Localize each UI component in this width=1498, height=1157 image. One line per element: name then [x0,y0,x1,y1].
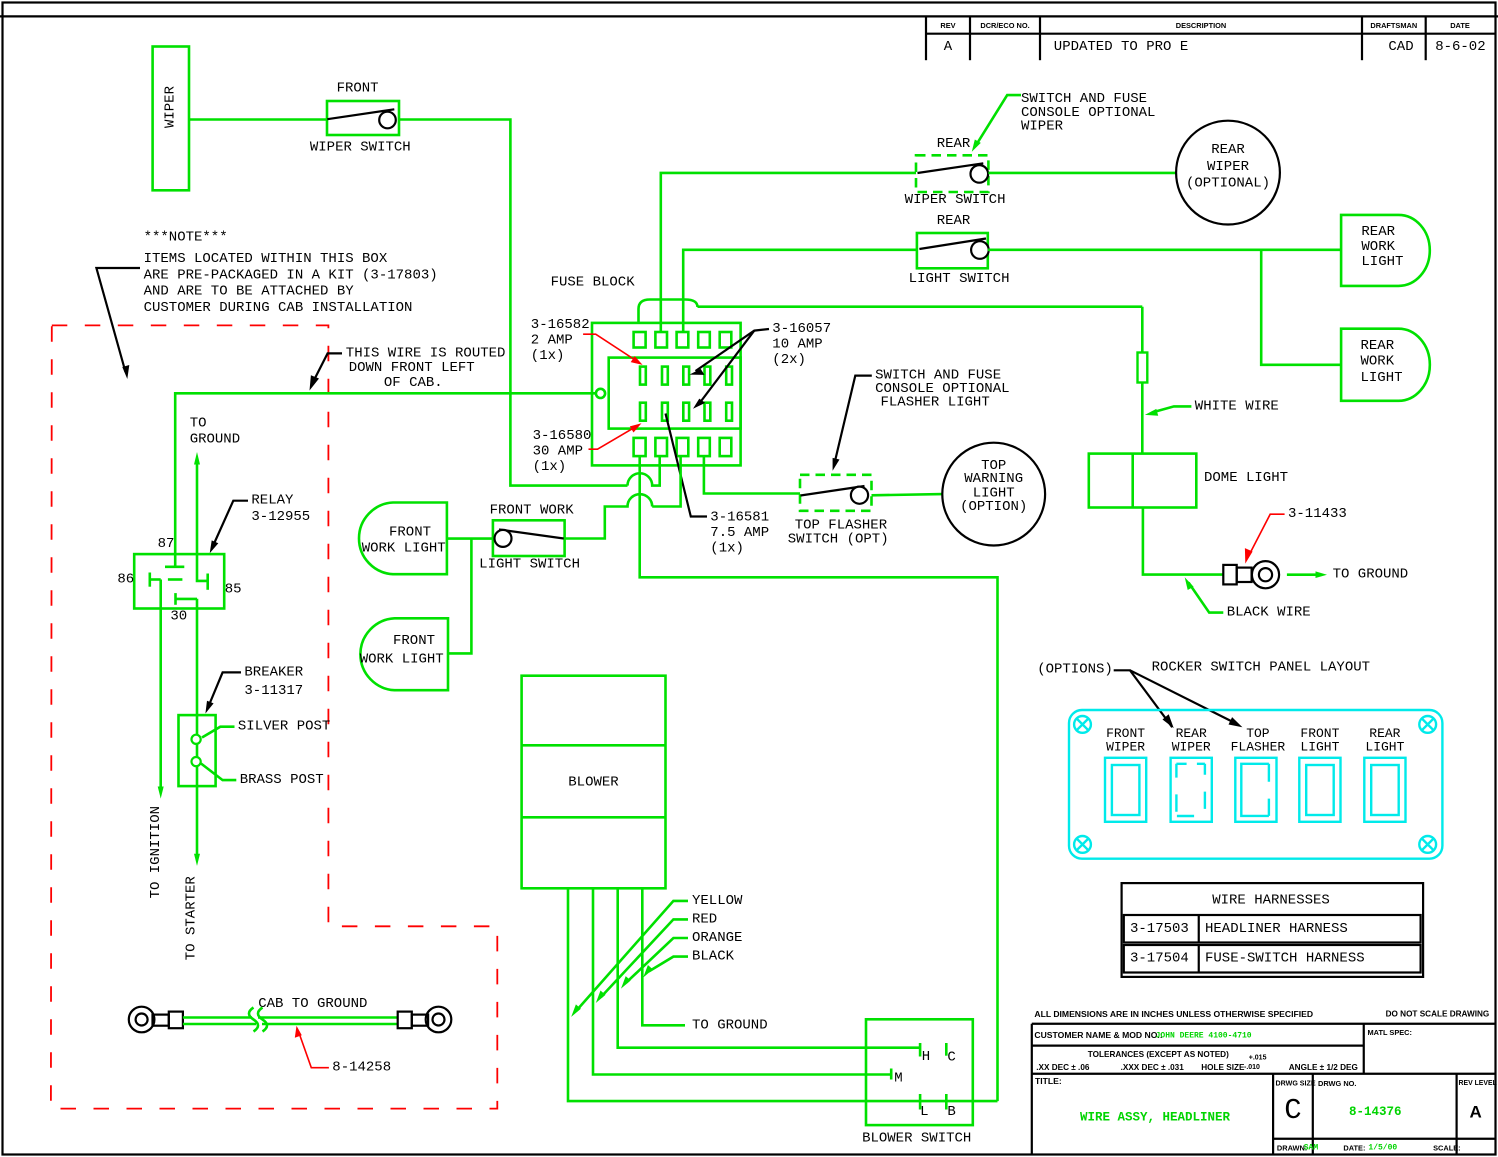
svg-text:87: 87 [158,536,175,552]
wire flasher switch to top warning light [872,494,943,495]
svg-text:3-16057: 3-16057 [772,321,831,337]
svg-text:HOLE SIZE: HOLE SIZE [1201,1063,1245,1072]
front wiper rocker hole [1105,758,1146,822]
rear wiper rocker hole (optional dashed) [1171,758,1212,822]
svg-text:DOWN FRONT LEFT: DOWN FRONT LEFT [349,360,475,376]
breaker CB1 box [179,715,216,786]
leader to flasher switch [834,376,872,464]
blower switch pin C [945,1043,948,1056]
svg-text:BLACK WIRE: BLACK WIRE [1227,605,1311,621]
svg-text:WIRE ASSY, HEADLINER: WIRE ASSY, HEADLINER [1080,1111,1231,1125]
breaker leader arrow [208,672,241,707]
wire fuse3 top to rear light switch [683,250,917,332]
svg-text:FRONT: FRONT [337,80,379,96]
svg-text:3-16581: 3-16581 [710,510,769,526]
svg-text:C: C [947,1050,955,1066]
svg-text:WIPER: WIPER [162,85,178,128]
blower wire D (black/ground) [642,888,685,1025]
blower wire C (orange) [618,888,920,1047]
rocker switch panel plate [1069,710,1442,859]
blower wire A (yellow) [568,888,998,1101]
front wiper switch contact [327,109,394,119]
svg-text:LIGHT: LIGHT [1361,370,1403,386]
wire hump over fuse1 drop [628,457,660,486]
svg-text:TO: TO [190,415,207,431]
svg-text:CUSTOMER NAME & MOD NO.:: CUSTOMER NAME & MOD NO.: [1034,1030,1162,1040]
screw top-left [1074,716,1091,733]
svg-text:DCR/ECO NO.: DCR/ECO NO. [980,21,1029,30]
revision table [926,16,1496,60]
svg-text:ALL DIMENSIONS ARE IN INCHES U: ALL DIMENSIONS ARE IN INCHES UNLESS OTHE… [1034,1009,1313,1019]
svg-text:THIS WIRE IS ROUTED: THIS WIRE IS ROUTED [346,345,506,361]
svg-text:REAR: REAR [937,213,971,229]
top flasher switch dashed box [800,475,872,511]
relay leader arrow [213,501,249,547]
front light rocker hole [1299,758,1340,822]
svg-text:ITEMS LOCATED WITHIN THIS BOX: ITEMS LOCATED WITHIN THIS BOX [144,251,388,267]
fuse bottom row terminals [634,438,732,456]
blower switch pin B [945,1094,948,1110]
rear light switch box [917,233,988,268]
svg-text:(OPTIONAL): (OPTIONAL) [1186,176,1270,192]
fuse block inner box [609,358,741,429]
dome light box [1089,454,1197,508]
svg-text:FUSE-SWITCH HARNESS: FUSE-SWITCH HARNESS [1205,950,1365,966]
THIS WIRE label [346,345,506,390]
svg-text:.XXX DEC ± .031: .XXX DEC ± .031 [1121,1063,1185,1072]
rear work light 1 [1341,215,1430,286]
svg-text:RED: RED [692,911,717,927]
blower switch box [866,1019,973,1125]
note text block [144,230,438,317]
svg-text:SILVER POST: SILVER POST [238,719,330,735]
fuse slots row 2 [640,403,732,421]
front work light 1 [359,503,447,575]
svg-text:BREAKER: BREAKER [244,664,303,680]
svg-text:C: C [1284,1094,1301,1127]
relay pin 85 internal [197,554,207,581]
fuse top row terminals [634,332,732,348]
wire hump to white-wire run [698,305,1143,308]
svg-text:WORK LIGHT: WORK LIGHT [362,540,446,556]
wire harnesses table [1122,883,1424,977]
svg-text:WHITE WIRE: WHITE WIRE [1195,398,1279,414]
svg-text:DRAWN:: DRAWN: [1277,1144,1307,1153]
svg-text:WIPER SWITCH: WIPER SWITCH [310,140,411,156]
svg-text:AND ARE TO BE ATTACHED BY: AND ARE TO BE ATTACHED BY [144,284,355,300]
svg-text:8-14258: 8-14258 [332,1060,391,1076]
svg-text:FLASHER LIGHT: FLASHER LIGHT [881,395,990,411]
svg-text:(OPTIONS): (OPTIONS) [1037,662,1113,678]
svg-text:FRONT WORK: FRONT WORK [490,503,575,519]
blower switch pin M [890,1069,893,1080]
svg-text:WIRE HARNESSES: WIRE HARNESSES [1212,892,1330,908]
screw bottom-left [1074,836,1091,853]
svg-text:DOME LIGHT: DOME LIGHT [1204,470,1288,486]
svg-text:CAD: CAD [1388,39,1413,55]
svg-text:.XX DEC ± .06: .XX DEC ± .06 [1036,1063,1090,1072]
svg-text:WIPER: WIPER [1106,740,1145,755]
svg-text:YELLOW: YELLOW [692,893,743,909]
svg-text:TO GROUND: TO GROUND [692,1017,768,1033]
svg-text:REAR: REAR [937,136,971,152]
rear work light 2 [1341,329,1430,401]
svg-text:+.015: +.015 [1249,1055,1267,1062]
svg-text:BRASS POST: BRASS POST [240,772,324,788]
svg-text:B: B [947,1104,955,1120]
svg-text:HEADLINER HARNESS: HEADLINER HARNESS [1205,921,1348,937]
wire wiper to front wiper switch [189,118,327,121]
front light switch contact [499,530,564,539]
svg-text:TOLERANCES (EXCEPT AS NOTED): TOLERANCES (EXCEPT AS NOTED) [1088,1050,1229,1059]
svg-text:A: A [1469,1103,1481,1122]
svg-text:3-12955: 3-12955 [251,509,310,525]
svg-text:FRONT: FRONT [389,524,431,540]
svg-text:M: M [894,1071,902,1087]
svg-text:3-16582: 3-16582 [531,317,590,333]
fuse slots row 1 [640,367,732,385]
page frame line [0,15,1498,17]
svg-text:3-16580: 3-16580 [533,428,592,444]
svg-text:FRONT: FRONT [393,633,435,649]
svg-text:JOHN DEERE 4100-4710: JOHN DEERE 4100-4710 [1156,1032,1252,1041]
wire light1 to front light switch [447,537,494,540]
cab ground strap wires [183,1016,252,1019]
svg-text:DESCRIPTION: DESCRIPTION [1176,21,1227,30]
red dashed kit box [51,325,497,1108]
top flasher rocker hole (partial dashed) [1235,758,1276,822]
svg-text:10 AMP: 10 AMP [772,337,822,353]
svg-text:CAB TO GROUND: CAB TO GROUND [258,996,367,1012]
fuse block top hump [639,300,698,323]
svg-text:***NOTE***: ***NOTE*** [144,230,228,246]
3-16580 red leader [589,426,637,449]
svg-text:WIPER: WIPER [1207,159,1250,175]
svg-text:ORANGE: ORANGE [692,930,742,946]
cab ground strap right ring terminal [398,1007,452,1033]
svg-text:86: 86 [117,572,134,588]
title block [1032,1009,1497,1155]
svg-text:LIGHT: LIGHT [1365,740,1404,755]
svg-text:MATL SPEC:: MATL SPEC: [1368,1028,1412,1037]
wire routed down front of cab (to fuse block) [175,393,596,554]
svg-text:TITLE:: TITLE: [1035,1076,1062,1086]
svg-text:L: L [920,1104,928,1120]
wiper motor box [153,47,189,191]
svg-text:LIGHT: LIGHT [1300,740,1339,755]
note leader arrow into dashed box [96,268,140,372]
relay U1 box [134,554,224,608]
svg-text:8-14376: 8-14376 [1349,1105,1402,1119]
svg-text:3-17504: 3-17504 [1130,950,1189,966]
wire fuse1 bottom long run to blower switch [640,456,998,1101]
svg-text:H: H [922,1049,930,1065]
ground ring terminal 3-11433 [1223,561,1279,588]
svg-text:ANGLE ± 1/2 DEG: ANGLE ± 1/2 DEG [1289,1063,1358,1072]
connector on white wire [1138,353,1148,383]
svg-text:FLASHER: FLASHER [1231,740,1286,755]
svg-text:85: 85 [225,581,242,597]
rear light switch contact [919,239,986,250]
svg-text:DATE: DATE [1450,21,1470,30]
svg-text:BLACK: BLACK [692,949,735,965]
svg-text:(1x): (1x) [531,348,565,364]
3-16582 red leader [583,334,637,361]
svg-text:WIPER SWITCH: WIPER SWITCH [905,192,1006,208]
to ground arrow up from relay 85 [196,461,199,554]
svg-text:DRWG NO.: DRWG NO. [1318,1079,1356,1088]
svg-text:FUSE BLOCK: FUSE BLOCK [551,275,636,291]
svg-text:3-17503: 3-17503 [1130,921,1189,937]
wire hump over fuse1 run [565,494,653,538]
relay pin 30 internal [174,593,177,605]
svg-text:WIPER: WIPER [1172,740,1211,755]
blower switch pin L [919,1094,922,1110]
options leader arrows [1114,670,1173,727]
front work light switch box [493,520,565,556]
svg-text:REAR: REAR [1361,224,1395,240]
svg-text:30: 30 [170,609,187,625]
white wire down to dome light [1141,307,1144,454]
svg-text:(OPTION): (OPTION) [960,499,1027,515]
rear wiper motor circle [1176,121,1280,225]
blower box [522,676,666,889]
wire rear wiper switch to rear wiper motor [988,172,1176,175]
svg-text:SAM: SAM [1304,1144,1319,1153]
svg-text:7.5 AMP: 7.5 AMP [710,525,769,541]
svg-text:REAR: REAR [1361,338,1395,354]
relay armature dash [168,578,183,581]
svg-text:WORK: WORK [1361,239,1395,255]
front work light 2 [360,618,448,690]
relay pin 87 internal [174,554,177,567]
blower switch pin H [919,1043,922,1057]
3-16057 leader arrows [696,329,770,371]
cab ground strap left ring terminal [129,1007,183,1033]
wire junction down to rear work light 2 [1261,250,1341,365]
wire rear light switch to rear work lights [988,249,1341,252]
svg-text:TO STARTER: TO STARTER [184,876,200,961]
svg-text:TO IGNITION: TO IGNITION [148,806,164,898]
wire relay 86 to ignition arrow [159,580,162,791]
rear wiper switch contact [918,163,984,173]
wire fuse2 top to rear wiper switch [661,173,916,332]
svg-text:LIGHT SWITCH: LIGHT SWITCH [909,271,1010,287]
wire relay 30 through breaker to starter arrow [196,599,199,857]
breaker silver post [192,735,201,744]
svg-text:-.010: -.010 [1244,1064,1260,1071]
svg-text:DATE:: DATE: [1343,1144,1365,1153]
svg-text:OF CAB.: OF CAB. [384,375,443,391]
wire fuse3 bottom to front light switch [652,457,680,507]
svg-text:(1x): (1x) [710,541,744,557]
svg-text:ROCKER SWITCH PANEL LAYOUT: ROCKER SWITCH PANEL LAYOUT [1152,660,1370,676]
svg-text:LIGHT: LIGHT [1361,254,1403,270]
leader to rear wiper switch [976,95,1022,146]
wire junction down to light2 [448,539,471,654]
svg-text:UPDATED TO PRO E: UPDATED TO PRO E [1054,39,1188,55]
to ground arrow (right) [1287,573,1319,576]
wire front wiper switch to fuse (right, down, left run) [399,120,628,486]
svg-text:REAR: REAR [1211,142,1245,158]
THIS WIRE leader arrow [312,353,343,385]
black wire from dome light to ring terminal [1143,508,1223,575]
screw bottom-right [1419,836,1436,853]
svg-text:WORK: WORK [1361,354,1395,370]
svg-text:3-11433: 3-11433 [1288,506,1347,522]
svg-text:(1x): (1x) [533,459,567,475]
svg-text:RELAY: RELAY [251,493,294,509]
top flasher switch contact [801,486,865,496]
blower wire B (red) [593,888,891,1074]
svg-text:REV: REV [940,21,955,30]
wire fuse4 bottom to flasher switch [704,457,800,494]
breaker brass post [192,757,201,766]
svg-text:CUSTOMER DURING CAB INSTALLATI: CUSTOMER DURING CAB INSTALLATION [144,300,413,316]
svg-text:WIPER: WIPER [1021,119,1064,135]
svg-text:(2x): (2x) [772,352,806,368]
svg-text:ARE PRE-PACKAGED IN A KIT (3-1: ARE PRE-PACKAGED IN A KIT (3-17803) [144,268,438,284]
top warning light circle [942,443,1045,546]
svg-text:DRWG SIZE: DRWG SIZE [1276,1079,1316,1087]
svg-text:BLOWER: BLOWER [568,775,619,791]
screw top-right [1419,716,1436,733]
fuse block outer box [592,323,741,466]
svg-text:2 AMP: 2 AMP [531,333,573,349]
svg-text:DRAFTSMAN: DRAFTSMAN [1370,21,1417,30]
wire break symbol [249,1008,267,1032]
svg-text:DO NOT SCALE DRAWING: DO NOT SCALE DRAWING [1386,1009,1490,1018]
svg-text:REV LEVEL: REV LEVEL [1459,1080,1497,1087]
svg-text:8-6-02: 8-6-02 [1435,39,1485,55]
svg-text:LIGHT SWITCH: LIGHT SWITCH [479,556,580,572]
relay pin 86 internal [149,573,152,587]
svg-text:SCALE:: SCALE: [1433,1144,1461,1153]
svg-text:3-11317: 3-11317 [244,683,303,699]
fuse block left connector circle [596,389,605,398]
svg-text:SWITCH (OPT): SWITCH (OPT) [788,532,889,548]
svg-text:BLOWER SWITCH: BLOWER SWITCH [862,1131,971,1147]
front wiper switch box [327,101,399,135]
rear light rocker hole [1364,758,1405,822]
svg-text:A: A [944,39,953,55]
svg-text:1/5/00: 1/5/00 [1368,1144,1397,1153]
3-16581 leader line [666,414,708,517]
svg-text:30 AMP: 30 AMP [533,444,583,460]
svg-text:WORK LIGHT: WORK LIGHT [360,652,444,668]
rear wiper switch dashed box [916,155,988,192]
svg-text:GROUND: GROUND [190,432,240,448]
svg-text:TO GROUND: TO GROUND [1333,567,1409,583]
